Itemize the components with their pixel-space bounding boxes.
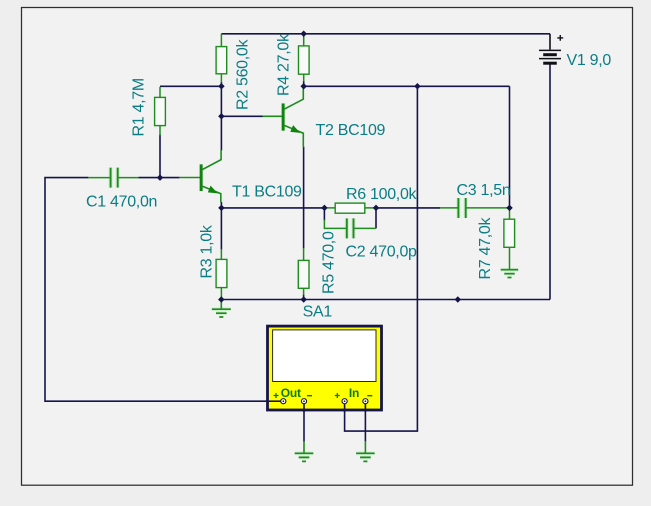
wire C2 left drop — [323, 208, 325, 221]
node dot R5 bottom — [300, 296, 307, 303]
wire vertical to In+ — [345, 86, 418, 431]
wire R5 bottom stub — [303, 295, 305, 300]
wire emitter node to R6 node — [221, 207, 324, 209]
wire T2 emitter long column — [303, 147, 305, 249]
resistor R4 — [276, 33, 310, 96]
resistor R6 — [326, 186, 418, 213]
wire R1 bottom column — [159, 135, 161, 178]
resistor R5 — [298, 231, 337, 295]
node dot R3 bottom — [218, 296, 225, 303]
transistor T1 — [179, 150, 302, 203]
node dot top rail R4 — [300, 31, 307, 38]
wire feedback Out+ to C1 — [45, 178, 281, 402]
wire C2 right rise — [375, 208, 377, 229]
node dot C3 R7 — [506, 205, 513, 212]
node dot emitter node — [218, 205, 225, 212]
node dot T1 base — [157, 174, 164, 181]
wire R1 top to T1 collector node — [160, 85, 221, 87]
capacitor C2 — [324, 218, 417, 260]
wire T1 emitter to node — [220, 202, 222, 208]
ground under R3 — [212, 300, 231, 318]
ground under Out- — [295, 441, 314, 461]
wire R2 bottom stub — [220, 82, 222, 86]
svg-text:V1 9,0: V1 9,0 — [567, 52, 612, 69]
node dot x417 tap — [414, 83, 421, 90]
wire R4 bottom stub — [303, 81, 305, 86]
wire output column x509 — [509, 86, 511, 208]
node dot rail x458 — [455, 296, 462, 303]
capacitor C3 — [440, 182, 510, 218]
svg-text:R5 470,0: R5 470,0 — [321, 231, 338, 294]
wire T2 base — [221, 115, 263, 117]
svg-text:In: In — [349, 386, 359, 400]
wire top supply rail — [221, 33, 550, 35]
svg-text:Out: Out — [281, 386, 301, 400]
instrument SA1 — [266, 303, 382, 412]
resistor R2 — [216, 34, 252, 110]
battery V1 — [539, 34, 611, 69]
svg-text:R4 27,0k: R4 27,0k — [276, 33, 293, 96]
wire bottom ground rail — [221, 299, 550, 301]
wire T1 collector column — [220, 86, 222, 150]
node dot R6 left — [321, 205, 328, 212]
node dot T1 collector top — [218, 83, 225, 90]
wire battery negative column — [549, 64, 551, 299]
pale halo under green parts — [111, 103, 519, 457]
wire R3 top column — [220, 208, 222, 250]
node dot R4 bottom — [300, 83, 307, 90]
node dot T2 base — [218, 113, 225, 120]
svg-text:R3 1,0k: R3 1,0k — [199, 224, 216, 278]
ground under In- — [356, 441, 375, 461]
wire output rail y86 — [304, 85, 510, 87]
resistor R1 — [131, 78, 166, 136]
svg-text:T2 BC109: T2 BC109 — [316, 122, 386, 139]
wire R6 node to C3 — [376, 207, 440, 209]
wire base node horizontal — [139, 177, 180, 179]
svg-text:C2 470,0p: C2 470,0p — [346, 244, 418, 261]
svg-text:SA1: SA1 — [303, 303, 333, 320]
resistor R7 — [477, 208, 515, 280]
resistor R3 — [199, 224, 227, 299]
svg-text:C1 470,0n: C1 470,0n — [86, 194, 157, 211]
svg-text:R6 100,0k: R6 100,0k — [346, 186, 418, 203]
wire In- down — [364, 404, 366, 442]
svg-text:R1 4,7M: R1 4,7M — [131, 78, 148, 136]
svg-text:R7 47,0k: R7 47,0k — [477, 217, 494, 280]
wire Out- down — [303, 404, 305, 442]
node dot R6 right — [373, 205, 380, 212]
svg-text:C3 1,5n: C3 1,5n — [457, 182, 511, 199]
transistor T2 — [263, 87, 386, 147]
svg-text:T1 BC109: T1 BC109 — [232, 183, 302, 200]
ground under R7 — [501, 270, 519, 278]
capacitor C1 — [86, 168, 157, 211]
svg-text:R2 560,0k: R2 560,0k — [235, 38, 252, 110]
